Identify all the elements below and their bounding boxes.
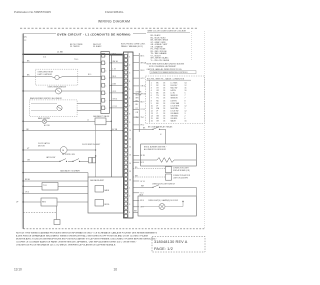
- svg-text:8: 8: [105, 108, 106, 110]
- bake igniter symbol: [42, 119, 46, 123]
- svg-text:EOC PIN - WIRE / FIL - GAUGE -: EOC PIN - WIRE / FIL - GAUGE - CONNECTIO…: [147, 77, 185, 80]
- oven vent temp limiter dashed box: [35, 69, 77, 85]
- junction latchsw left: [23, 161, 24, 162]
- svg-text:18: 18: [163, 121, 165, 123]
- junction lower1: [23, 172, 24, 173]
- wire igniter out: [174, 159, 196, 161]
- EOC pin boxes and pin numbers: [124, 55, 131, 218]
- EOC internal divider: [127, 52, 129, 218]
- svg-text:LATCH: LATCH: [171, 89, 177, 92]
- wire P1-8 to EOC: [109, 107, 123, 109]
- wire lights return: [133, 212, 138, 214]
- svg-text:MONTRE AVEC TOUS LES INTERRUPT: MONTRE AVEC TOUS LES INTERRUPTEURS EN PO…: [16, 237, 157, 240]
- svg-text:1: 1: [129, 188, 130, 190]
- svg-text:7: 7: [105, 101, 106, 103]
- wire lower row 3b: [58, 185, 88, 187]
- junction N2 crossing: [122, 70, 123, 71]
- junction N2 crossing: [122, 92, 123, 93]
- wire row 6: [47, 120, 95, 122]
- wire EOC lower stub 5: [133, 199, 139, 201]
- wire EOC right stub 1: [133, 55, 139, 57]
- svg-text:GAS VALVE ASSY: GAS VALVE ASSY: [90, 179, 105, 182]
- svg-text:OR 16: OR 16: [141, 86, 146, 88]
- connector P1 body: [101, 52, 109, 114]
- svg-text:COUPER LE COURANT AVANT DE FAI: COUPER LE COURANT AVANT DE FAIRE L'ENTRE…: [16, 240, 137, 243]
- svg-text:AL 2 BK: AL 2 BK: [44, 124, 51, 127]
- junction spark left: [23, 130, 24, 131]
- wire EOC lower stub 1: [133, 154, 139, 156]
- svg-text:16: 16: [129, 179, 131, 181]
- convection annotation box 2: [166, 174, 172, 180]
- wire light sw left: [133, 186, 150, 188]
- dashed stub line: [23, 212, 57, 214]
- svg-text:DE PORTE / SW: DE PORTE / SW: [62, 154, 75, 156]
- wire P1-1 to EOC: [109, 54, 123, 56]
- wire P1-7 to EOC: [109, 99, 123, 101]
- wire drop to igniter box: [165, 129, 167, 144]
- svg-text:WIRE COLOR CODE/CODES DE COULE: WIRE COLOR CODE/CODES DE COULEUR: [148, 31, 187, 33]
- svg-text:BAKE: BAKE: [105, 189, 110, 192]
- safety valve box: [95, 118, 106, 125]
- wire row 3 right: [62, 90, 101, 92]
- svg-text:OVEN TEMP SENSOR: OVEN TEMP SENSOR: [48, 86, 67, 88]
- wire EOC right stub 9: [133, 116, 139, 118]
- svg-text:DC: DC: [24, 36, 28, 38]
- svg-text:6: 6: [105, 93, 106, 95]
- svg-text:LATCH SW: LATCH SW: [46, 156, 55, 159]
- svg-text:ELECTRONIC OVEN CONT.: ELECTRONIC OVEN CONT.: [121, 43, 146, 45]
- wire lower row 3a: [23, 185, 42, 187]
- svg-text:16: 16: [114, 267, 118, 271]
- svg-text:UTILISER UN FIL DE RECHANGE 10: UTILISER UN FIL DE RECHANGE 105 C OU MIE…: [16, 243, 116, 246]
- svg-text:PANEL / TABLEAU (EOC): PANEL / TABLEAU (EOC): [121, 45, 143, 48]
- latch motor M1 symbol: [60, 147, 67, 154]
- table header underline: [147, 79, 192, 81]
- service note text block: [16, 231, 158, 246]
- svg-text:2: 2: [129, 196, 130, 198]
- junction row1 left: [23, 62, 24, 63]
- svg-text:LIGHT ON (ON/OFF): LIGHT ON (ON/OFF): [173, 177, 188, 179]
- wire row 6a: [23, 120, 42, 122]
- wire row 5 out: [77, 110, 101, 112]
- bake valve coil box: [95, 186, 104, 193]
- svg-text:BK/WH: BK/WH: [136, 95, 142, 97]
- svg-text:L1: L1: [87, 120, 89, 122]
- wire P1-2 to EOC: [109, 62, 123, 64]
- svg-text:Publication No 5995576405: Publication No 5995576405: [14, 10, 51, 14]
- junction N2-bus: [122, 54, 123, 55]
- svg-text:NOTICE: THIS WIRING DIAGRAM PR: NOTICE: THIS WIRING DIAGRAM PROVIDES SER…: [16, 231, 158, 234]
- svg-text:8: 8: [129, 114, 130, 116]
- svg-text:1: 1: [129, 56, 130, 58]
- wire row 4 inner: [31, 103, 57, 105]
- spark module box: [42, 183, 58, 191]
- wire latch left: [23, 149, 60, 151]
- svg-text:BROIL: BROIL: [105, 204, 110, 206]
- svg-text:BK 5: BK 5: [113, 54, 117, 56]
- svg-text:YL 3: YL 3: [140, 193, 143, 195]
- svg-text:TCO: TCO: [43, 185, 47, 187]
- svg-text:16: 16: [185, 121, 187, 123]
- svg-text:12: 12: [129, 147, 131, 149]
- svg-text:A DES FINS DE DEPANNAGE SEULEM: A DES FINS DE DEPANNAGE SEULEMENT. WIRIN…: [16, 234, 149, 237]
- svg-text:GY/WH: GY/WH: [136, 92, 142, 94]
- legend heading underline: [147, 32, 190, 34]
- wire EOC right stub 5: [133, 85, 139, 87]
- junction N1 crossing: [111, 62, 112, 63]
- svg-text:VT 12: VT 12: [141, 109, 146, 111]
- svg-text:OVEN DOOR LIGHT SWITCH: OVEN DOOR LIGHT SWITCH: [152, 183, 176, 185]
- svg-text:13: 13: [129, 155, 131, 157]
- wire igniter in: [133, 159, 157, 161]
- wire P1-5 to EOC: [109, 84, 123, 86]
- junction N1 crossing: [111, 107, 112, 108]
- junction lower5: [23, 201, 24, 202]
- pressure regulator box: [41, 198, 57, 206]
- junction latch left: [23, 149, 24, 150]
- page top dashed rule: [20, 27, 198, 29]
- svg-text:RD 8: RD 8: [140, 194, 144, 196]
- wire latch sw right: [80, 160, 89, 162]
- diagram frame left border inner line: [21, 34, 23, 229]
- wire relay row right: [160, 128, 166, 130]
- svg-text:DOOR SWITCH ASSY: DOOR SWITCH ASSY: [82, 143, 101, 146]
- svg-text:TO L1: TO L1: [74, 59, 79, 61]
- diagram frame right dotted border: [204, 31, 206, 229]
- wire EOC right stub 4: [133, 77, 139, 79]
- legend boxed note: [150, 71, 196, 74]
- svg-text:OR: OR: [156, 121, 159, 123]
- svg-text:BU: BU: [136, 104, 139, 106]
- svg-text:TN 7: TN 7: [140, 207, 144, 209]
- svg-text:4 dL: 4 dL: [43, 57, 46, 59]
- svg-text:OR: OR: [136, 112, 139, 114]
- svg-text:4 /: 4 /: [160, 134, 162, 136]
- wire lower row 2: [23, 180, 88, 182]
- svg-text:11: 11: [129, 138, 131, 140]
- wire EOC right stub 10: [133, 124, 139, 126]
- junction row6 at N1: [111, 121, 112, 122]
- svg-text:CONVECTION LIGHT: CONVECTION LIGHT: [173, 168, 189, 170]
- svg-text:318048130 REV A: 318048130 REV A: [154, 240, 188, 244]
- wire lower row 1: [23, 172, 88, 174]
- svg-text:CONV FAN: CONV FAN: [171, 102, 180, 105]
- svg-text:FGGF3054KL: FGGF3054KL: [105, 10, 124, 14]
- svg-text:WH: WH: [135, 176, 139, 178]
- pin connection table rows: [151, 82, 187, 122]
- wire light drop: [195, 187, 197, 196]
- svg-text:N L1: N L1: [88, 74, 91, 76]
- svg-text:RD 8: RD 8: [113, 76, 117, 78]
- oven lamp DS1 symbol: [159, 204, 165, 210]
- svg-text:WH 1G: WH 1G: [141, 94, 147, 96]
- svg-text:9: 9: [129, 122, 130, 124]
- vertical wire net N1: [110, 54, 112, 177]
- wire lamp internal: [141, 206, 159, 208]
- junction latch at riser95: [95, 149, 96, 150]
- junction lower2: [23, 180, 24, 181]
- wire dashes to box1: [133, 168, 166, 170]
- svg-text:OR 6: OR 6: [25, 192, 29, 194]
- frame top border right segment: [133, 33, 146, 35]
- wire BK row 1: [23, 61, 101, 63]
- wire lower row 5a: [23, 201, 41, 203]
- svg-text:GY 14: GY 14: [140, 181, 145, 183]
- wire EOC right stub 8: [133, 108, 139, 110]
- svg-text:BK 5: BK 5: [141, 55, 145, 57]
- svg-text:GAS SAFETY VALVE: GAS SAFETY VALVE: [93, 115, 110, 118]
- diagram frame top border segment: [23, 33, 56, 35]
- junction lower3: [23, 186, 24, 187]
- svg-text:16: 16: [151, 121, 153, 123]
- svg-text:LIMIT / LIMITEUR: LIMIT / LIMITEUR: [38, 74, 53, 76]
- svg-text:BR 6: BR 6: [140, 200, 144, 202]
- wire row 6b: [106, 120, 111, 122]
- svg-text:15: 15: [129, 171, 131, 173]
- wire P1-4 to EOC: [109, 77, 123, 79]
- vertical wire net N2: [122, 54, 124, 177]
- svg-text:VT: VT: [136, 108, 138, 110]
- svg-text:CONNECTION WHEN SERVICING CONT: CONNECTION WHEN SERVICING CONTROLS: [151, 72, 188, 74]
- svg-text:WIRING DIAGRAM: WIRING DIAGRAM: [98, 19, 130, 23]
- svg-text:TN 7: TN 7: [141, 117, 145, 119]
- svg-text:10: 10: [129, 130, 131, 132]
- svg-text:BAKE IGNITER: BAKE IGNITER: [38, 117, 51, 120]
- junction lower4: [23, 193, 24, 194]
- junction row3 left: [23, 90, 24, 91]
- svg-text:GY 3B: GY 3B: [112, 129, 118, 131]
- svg-text:CAUTION: LABEL ALL WIRES PRIOR: CAUTION: LABEL ALL WIRES PRIOR TO DIS-: [147, 68, 183, 71]
- wire EOC lower stub 2: [133, 161, 139, 163]
- pin table dashed box: [146, 76, 205, 124]
- svg-text:4: 4: [105, 78, 106, 80]
- svg-text:3: 3: [105, 71, 106, 73]
- wire lower row 5b: [57, 201, 88, 203]
- broil igniter box: [141, 144, 197, 166]
- igniter assembly dashed box: [30, 100, 78, 117]
- connector P1 pin boxes with pin numbers: [102, 54, 107, 111]
- svg-text:ALLUMEUR DU BRULEUR: ALLUMEUR DU BRULEUR: [144, 148, 167, 151]
- junction GY right: [122, 130, 123, 131]
- svg-text:BU 9: BU 9: [141, 101, 145, 103]
- junction row2 left: [23, 76, 24, 77]
- svg-text:11/10: 11/10: [14, 267, 22, 271]
- svg-text:OVEN CIRCUIT - L1 (CONDUITS DE: OVEN CIRCUIT - L1 (CONDUITS DE NORMA): [57, 33, 131, 37]
- gas valve assembly box: [88, 177, 124, 213]
- oven lights box: [138, 196, 196, 216]
- wire L1 bus: [23, 53, 122, 55]
- svg-text:M: M: [62, 150, 64, 152]
- table inner vertical rule: [149, 80, 151, 122]
- svg-text:3: 3: [129, 204, 130, 206]
- junction N1-bus: [111, 54, 112, 55]
- svg-text:4: 4: [129, 212, 130, 214]
- svg-text:2: 2: [105, 63, 106, 65]
- svg-text:VT 12: VT 12: [113, 106, 117, 108]
- svg-text:LF: LF: [16, 202, 19, 204]
- svg-text:14: 14: [129, 163, 131, 165]
- legend column dotted divider: [190, 31, 192, 60]
- igniter resistor R1 zigzag: [157, 158, 174, 163]
- door light switch symbol: [150, 186, 153, 188]
- wire row 4 out: [77, 103, 101, 105]
- vertical wire net N3: [138, 53, 140, 132]
- svg-text:WH: WH: [136, 98, 140, 100]
- junction riser95 latch: [95, 155, 96, 156]
- junction N1 crossing: [111, 85, 112, 86]
- junction row6 left: [23, 121, 24, 122]
- svg-text:6: 6: [129, 97, 130, 99]
- EOC connector J1 body: [124, 52, 134, 218]
- wire row 3 left: [23, 90, 55, 92]
- svg-text:4: 4: [129, 81, 130, 83]
- svg-text:FIL BLANC: FIL BLANC: [93, 45, 102, 48]
- oven temp sensor symbol: [56, 88, 62, 94]
- wire latch right: [67, 149, 96, 151]
- junction bus-left border: [23, 54, 25, 56]
- door switch connector pair: [89, 158, 92, 163]
- wire latch sw left: [23, 160, 55, 162]
- svg-text:RD 8: RD 8: [141, 70, 145, 72]
- svg-text:5: 5: [129, 89, 130, 91]
- wire row 2 left: [23, 76, 52, 78]
- svg-text:A 3B: A 3B: [113, 83, 116, 86]
- wire EOC right stub 7: [133, 101, 139, 103]
- svg-text:BK 5 IGNITER RELAY / RELAIS: BK 5 IGNITER RELAY / RELAIS: [148, 125, 173, 128]
- door latch switch SW2: [68, 160, 73, 162]
- svg-text:1: 1: [105, 56, 106, 58]
- svg-text:1 2: 1 2: [24, 40, 27, 42]
- diagram frame left border: [22, 34, 24, 229]
- broil valve coil box: [95, 200, 104, 207]
- svg-text:REG: REG: [42, 202, 46, 204]
- svg-text:PK 2: PK 2: [141, 125, 145, 127]
- thermostat TH1 symbol: [55, 75, 59, 79]
- revision dashed box: [152, 237, 205, 253]
- legend color code list: [151, 34, 170, 62]
- drop wire x56: [55, 206, 57, 220]
- diagram frame bottom dashed border: [23, 228, 204, 230]
- wire row 2 right: [62, 76, 101, 78]
- ground lug box: [54, 220, 60, 225]
- svg-text:FIL TEMOIN: FIL TEMOIN: [70, 46, 80, 48]
- svg-text:YL - YELLOW / JAUNE: YL - YELLOW / JAUNE: [151, 59, 170, 62]
- convection annotation box 1: [166, 167, 172, 173]
- svg-text:GAS VALVE / SOUPAPE: GAS VALVE / SOUPAPE: [60, 169, 81, 172]
- wire EOC right stub 3: [133, 69, 139, 71]
- wire EOC lower stub 4: [133, 192, 139, 194]
- wire EOC right stub 2: [133, 62, 139, 64]
- wire corner drop x88: [87, 173, 89, 177]
- svg-text:GY 3: GY 3: [113, 91, 117, 93]
- junction GY at N1: [111, 130, 112, 131]
- svg-text:3: 3: [129, 73, 130, 75]
- svg-text:2: 2: [129, 65, 130, 67]
- wire P1-3 to EOC: [109, 69, 123, 71]
- svg-text:OR 16: OR 16: [113, 99, 118, 101]
- door latch switch SW1: [55, 160, 60, 162]
- svg-text:PAGE: 1/2: PAGE: 1/2: [154, 247, 173, 251]
- svg-text:IGN BAKE: IGN BAKE: [171, 112, 180, 115]
- wire lower row 4: [23, 192, 88, 194]
- wire light sw right: [160, 186, 196, 188]
- wire spark row: [23, 130, 122, 132]
- wire P1-6 to EOC: [109, 92, 123, 94]
- wire name labels column: [136, 92, 142, 120]
- igniter symbol: [57, 105, 62, 110]
- svg-text:CONVECTION MOTOR: CONVECTION MOTOR: [173, 175, 191, 177]
- svg-text:NOTE OTHERWISE / AUTREMENT: NOTE OTHERWISE / AUTREMENT: [149, 65, 176, 68]
- svg-text:BAKE BURNER IGNITER / ALLUMEUR: BAKE BURNER IGNITER / ALLUMEUR: [30, 97, 63, 100]
- wire dashes to box2: [133, 176, 166, 178]
- wire EOC lower stub 6: [133, 206, 139, 208]
- svg-text:VALVE: VALVE: [171, 120, 177, 123]
- wire EOC right stub 6: [133, 93, 139, 95]
- svg-text:L1 BK: L1 BK: [57, 52, 63, 54]
- riser wire x95: [95, 125, 97, 177]
- svg-text:7: 7: [129, 106, 130, 108]
- svg-text:MOTOR: MOTOR: [38, 146, 45, 148]
- wire EOC lower stub 3: [133, 180, 139, 182]
- svg-text:OVEN LIGHT(S) / LAMPE(S) DU FO: OVEN LIGHT(S) / LAMPE(S) DU FOUR: [148, 199, 179, 202]
- svg-text:GY 3: GY 3: [141, 78, 145, 80]
- wire row 5 inner: [31, 110, 57, 112]
- svg-text:5: 5: [105, 86, 106, 88]
- svg-text:NEUTRAL: NEUTRAL: [171, 107, 179, 110]
- wire relay row left: [133, 128, 150, 130]
- relay contact K1 symbol: [150, 128, 153, 130]
